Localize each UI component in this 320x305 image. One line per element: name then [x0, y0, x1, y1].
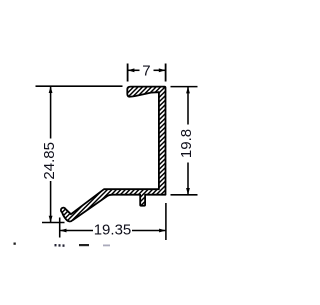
svg-text:19.8: 19.8	[178, 129, 195, 158]
dimension 7 : right arrow	[159, 68, 166, 72]
dimension 19.8 : top extension line	[171, 86, 198, 88]
dimension 24.85 : line upper	[50, 86, 52, 138]
dimension 19.8 : line lower	[187, 163, 189, 195]
dimension 19.8 : line upper	[187, 87, 189, 125]
dimension 24.85 : line lower	[50, 181, 52, 223]
dimension 24.85 : down arrow	[49, 216, 53, 223]
dimension 19.35 : right extension line	[165, 203, 167, 240]
dimension 7 : line left	[128, 69, 140, 71]
cropped text fragment: dot 1	[14, 243, 16, 245]
dimension 7 : left arrow	[128, 68, 135, 72]
dimension 19.35 : left extension line	[59, 218, 61, 238]
dimension 19.35 : line right	[132, 230, 166, 232]
dimension 24.85 : top extension line	[36, 85, 123, 87]
cropped text fragment: dash	[79, 244, 89, 246]
svg-text:24.85: 24.85	[41, 142, 58, 180]
svg-text:19.35: 19.35	[94, 222, 132, 239]
dimension 7 : line right	[154, 69, 166, 71]
cropped text fragment: ellipsis dots	[55, 244, 57, 246]
dimension 7 : right tick	[165, 64, 167, 82]
dimension 19.35 : right arrow	[159, 229, 166, 233]
svg-text:7: 7	[142, 63, 150, 80]
dimension 19.8 : down arrow	[186, 188, 190, 195]
dimension 19.35 : line left	[60, 230, 93, 232]
profile section (hatched aluminium extrusion)	[61, 87, 166, 222]
dimension 7 : left tick	[127, 64, 129, 82]
dimension 19.8 : up arrow	[186, 87, 190, 94]
cropped text fragment: faint mark	[103, 245, 110, 247]
dimension 24.85 : up arrow	[49, 86, 53, 93]
dimension 19.8 : bottom extension line	[171, 194, 198, 196]
dimension 24.85 : bottom extension line	[42, 222, 65, 224]
dimension 19.35 : left arrow	[60, 229, 67, 233]
